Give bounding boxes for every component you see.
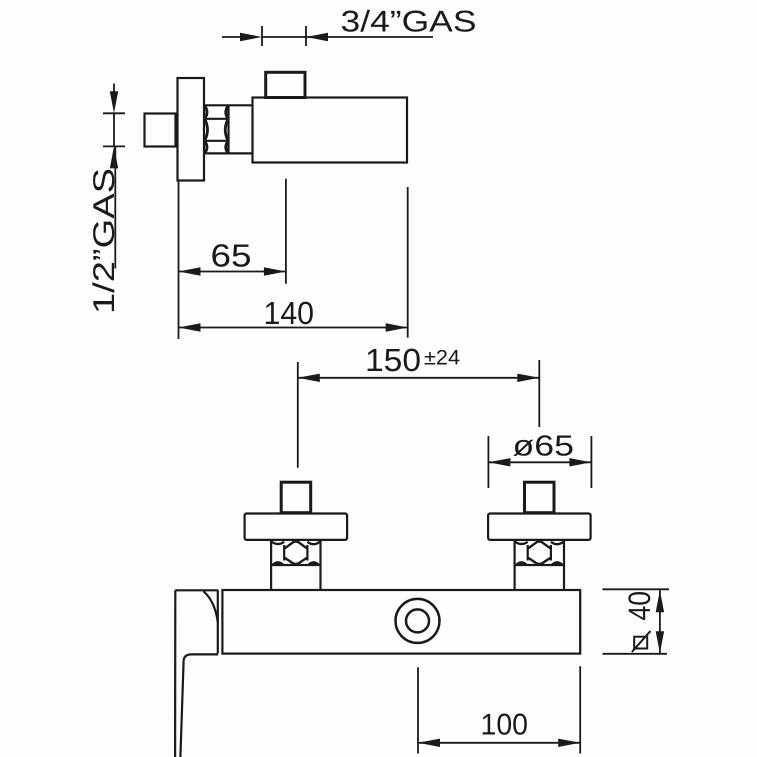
- dimension 3/4"GAS: [222, 6, 477, 46]
- left hex nut: [271, 541, 320, 565]
- wall flange: [178, 78, 205, 181]
- right hex nut: [515, 541, 564, 565]
- svg-text:1/2”GAS: 1/2”GAS: [88, 168, 121, 314]
- svg-text:100: 100: [481, 708, 529, 741]
- top outlet fitting (3/4"): [266, 72, 305, 97]
- svg-text:140: 140: [264, 295, 315, 331]
- dimension 140: [179, 295, 408, 332]
- svg-text:ø65: ø65: [513, 431, 575, 463]
- valve body: [253, 98, 408, 163]
- svg-text:65: 65: [211, 237, 252, 273]
- right inlet stub: [525, 482, 555, 513]
- dimension o40: [603, 589, 670, 654]
- left inlet stub: [281, 482, 311, 513]
- extension line for 140 (body right): [407, 187, 409, 338]
- right lower stub: [515, 565, 564, 590]
- diverter circle inner: [406, 609, 429, 632]
- svg-text:150: 150: [365, 342, 421, 378]
- extension line from flange (left): [178, 181, 180, 339]
- svg-text:40: 40: [622, 591, 657, 621]
- hex nut (side view): [204, 105, 253, 153]
- dimension 150 +-24: [298, 342, 540, 468]
- dimension 1/2"GAS: [88, 84, 125, 315]
- diverter circle outer: [396, 599, 440, 643]
- left lower stub: [271, 565, 320, 590]
- svg-text:±24: ±24: [424, 346, 460, 369]
- wall pipe stub (1/2" connection): [145, 114, 176, 147]
- mixer bar body: [222, 590, 580, 654]
- dimension o65: [488, 431, 591, 488]
- svg-text:3/4”GAS: 3/4”GAS: [341, 6, 477, 39]
- extension line for 65 (outlet centre): [285, 179, 287, 284]
- handle (lever): [175, 590, 218, 757]
- dimension 65: [179, 237, 286, 275]
- left flange: [245, 514, 348, 540]
- right flange: [488, 514, 590, 540]
- dimension 100: [418, 666, 580, 753]
